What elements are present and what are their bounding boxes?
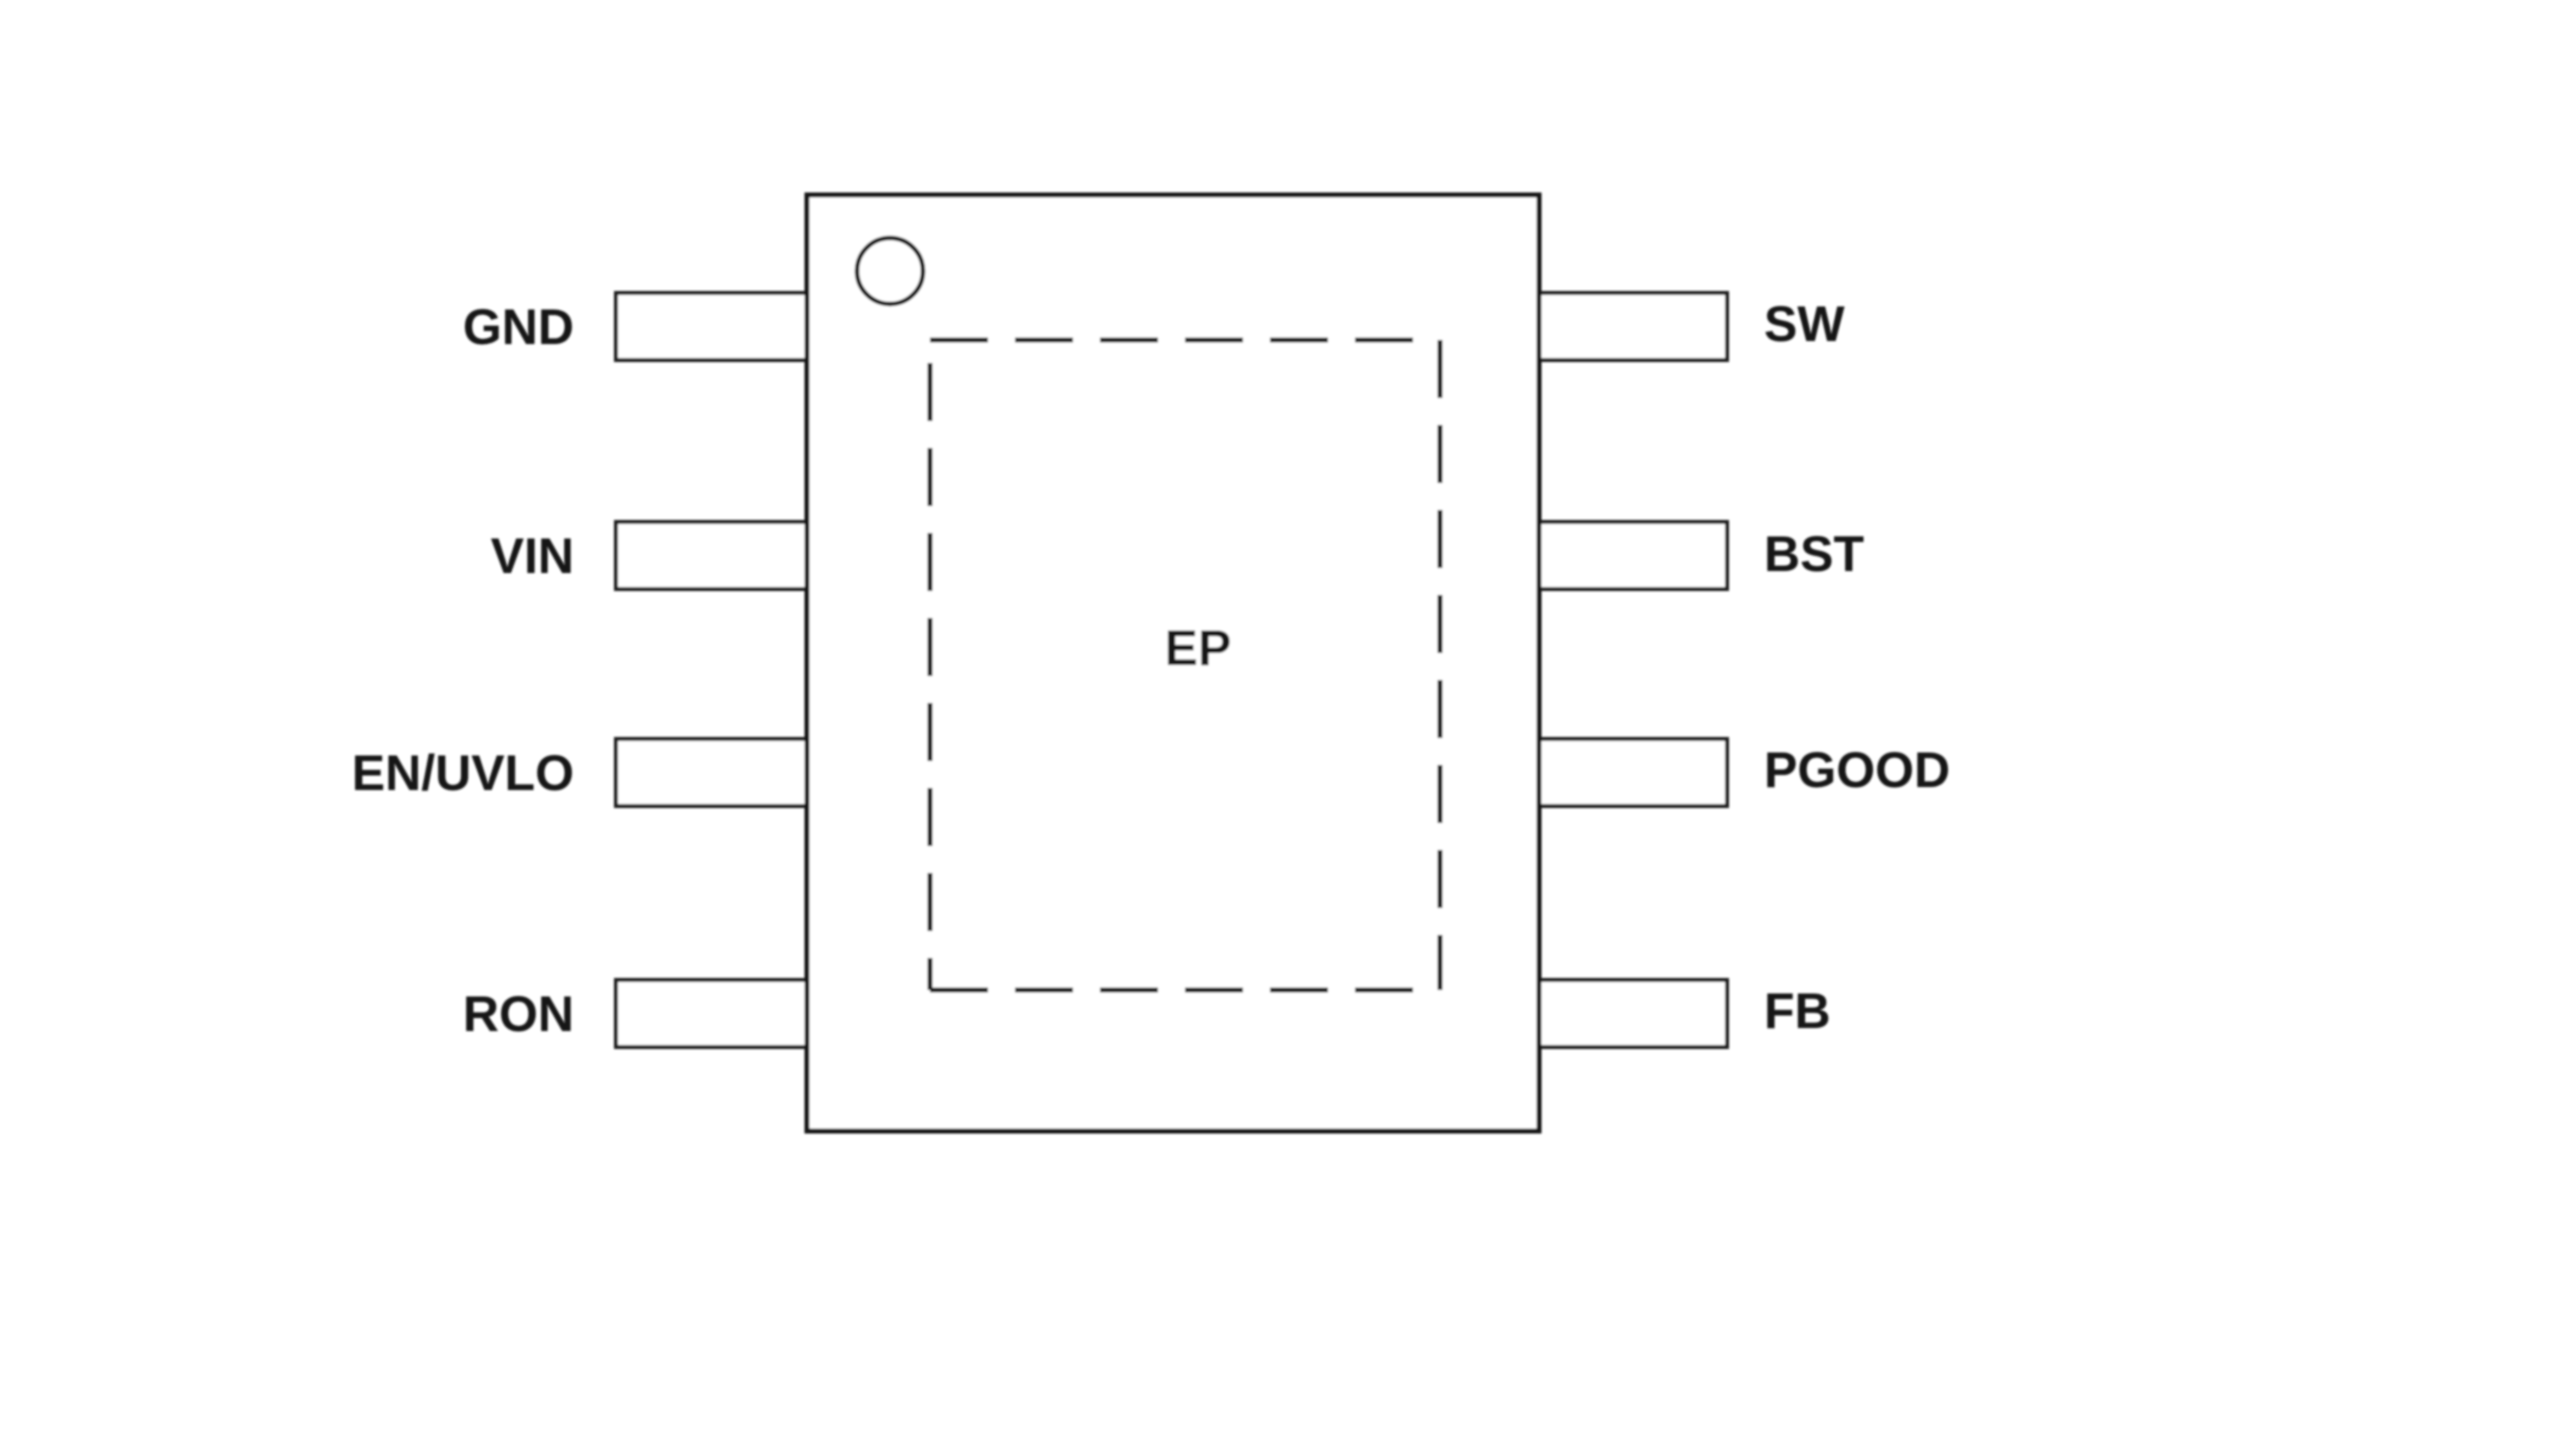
svg-text:EN/UVLO: EN/UVLO bbox=[352, 745, 574, 801]
svg-text:BST: BST bbox=[1764, 526, 1864, 582]
svg-text:RON: RON bbox=[463, 986, 574, 1042]
svg-text:SW: SW bbox=[1764, 296, 1845, 352]
svg-text:GND: GND bbox=[463, 299, 574, 355]
svg-text:PGOOD: PGOOD bbox=[1764, 742, 1950, 798]
svg-text:EP: EP bbox=[1165, 620, 1232, 676]
svg-text:FB: FB bbox=[1764, 983, 1831, 1039]
svg-text:VIN: VIN bbox=[491, 528, 574, 584]
